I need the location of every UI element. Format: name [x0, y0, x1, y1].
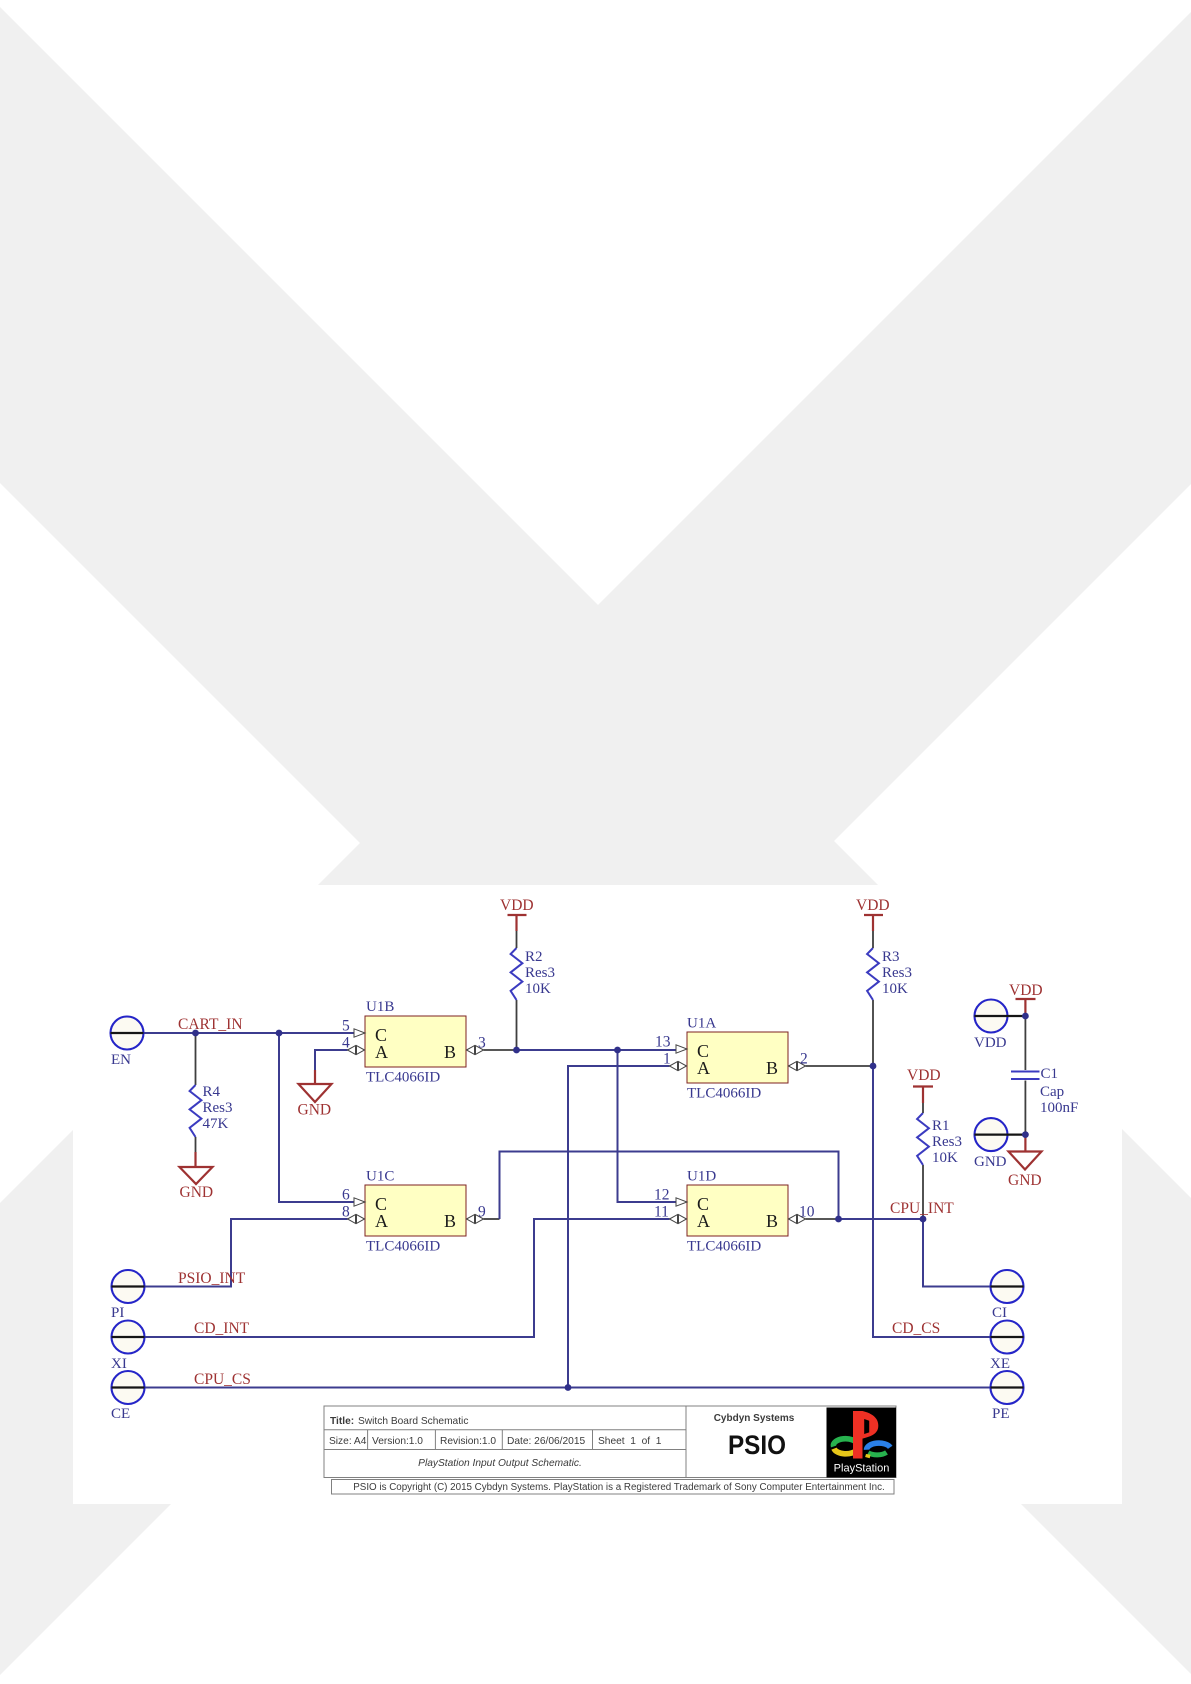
port CE [112, 1371, 145, 1404]
svg-text:PlayStation Input Output Schem: PlayStation Input Output Schematic. [418, 1458, 582, 1469]
svg-text:CE: CE [111, 1406, 130, 1422]
svg-text:A: A [375, 1042, 388, 1062]
svg-text:10K: 10K [932, 1150, 958, 1166]
svg-text:TLC4066ID: TLC4066ID [366, 1239, 440, 1255]
pin 4 [348, 1046, 356, 1055]
wire U1B pin3 stub [484, 1049, 517, 1051]
port PE [991, 1371, 1024, 1404]
ground below U1B pin4 [299, 1084, 332, 1102]
svg-text:CD_CS: CD_CS [892, 1320, 940, 1337]
pin 10 [789, 1215, 797, 1224]
pin 3 [467, 1046, 475, 1055]
svg-text:PlayStation: PlayStation [834, 1463, 890, 1475]
wire CPU_INT to CI [923, 1219, 991, 1287]
svg-text:VDD: VDD [974, 1035, 1007, 1051]
svg-text:10: 10 [799, 1204, 815, 1221]
svg-text:U1D: U1D [687, 1169, 716, 1185]
svg-text:EN: EN [111, 1052, 131, 1068]
wire U1A pin2 stub [806, 1065, 874, 1067]
svg-text:C1: C1 [1041, 1066, 1059, 1082]
wire CPU_CS (CE to PE) [145, 1387, 991, 1389]
port CI [991, 1270, 1024, 1303]
svg-text:CD_INT: CD_INT [194, 1320, 250, 1337]
pin 8 [348, 1215, 356, 1224]
resistor R1 [917, 1113, 929, 1165]
svg-text:8: 8 [342, 1204, 350, 1221]
svg-text:GND: GND [298, 1102, 332, 1119]
pin 9 [467, 1215, 475, 1224]
title block frame [324, 1406, 896, 1478]
node R3 junction [870, 1063, 877, 1070]
svg-text:PSIO: PSIO [728, 1430, 786, 1460]
wire VDD port to C1 [1024, 1016, 1026, 1070]
port XE [991, 1321, 1024, 1354]
wire R3 drop [872, 1000, 874, 1066]
node CART_IN junction at R4 [192, 1030, 199, 1037]
svg-text:Cybdyn Systems: Cybdyn Systems [714, 1413, 795, 1424]
svg-text:B: B [444, 1211, 456, 1231]
pin 1 [670, 1062, 678, 1071]
node CPU_INT junction at R1 [920, 1216, 927, 1223]
svg-text:CPU_CS: CPU_CS [194, 1371, 251, 1388]
svg-text:CART_IN: CART_IN [178, 1016, 243, 1033]
svg-text:12: 12 [654, 1187, 670, 1204]
svg-text:47K: 47K [203, 1116, 229, 1132]
wire CD_INT (XI to U1D pin11) [145, 1219, 670, 1337]
svg-text:CPU_INT: CPU_INT [890, 1200, 954, 1217]
svg-text:10K: 10K [525, 981, 551, 997]
svg-text:VDD: VDD [500, 897, 534, 914]
analog switch U1C [365, 1185, 466, 1236]
port EN [111, 1017, 144, 1050]
svg-text:R3: R3 [882, 949, 900, 965]
analog switch U1D [687, 1185, 788, 1236]
svg-text:CI: CI [992, 1305, 1007, 1321]
svg-text:R4: R4 [203, 1084, 221, 1100]
svg-text:Version:1.0: Version:1.0 [372, 1436, 423, 1447]
port PI [112, 1270, 145, 1303]
analog switch U1A [687, 1032, 788, 1083]
svg-text:PSIO is Copyright (C) 2015 Cyb: PSIO is Copyright (C) 2015 Cybdyn System… [353, 1482, 884, 1493]
VDD symbol above R1 [913, 1085, 933, 1087]
svg-text:A: A [697, 1058, 710, 1078]
wire PSIO_INT (PI to U1C pin8) [145, 1219, 348, 1287]
wire CD_CS vertical to XE [873, 1066, 991, 1337]
svg-text:100nF: 100nF [1040, 1100, 1078, 1116]
svg-text:Res3: Res3 [882, 965, 912, 981]
svg-text:XI: XI [111, 1356, 127, 1372]
svg-text:XE: XE [990, 1356, 1010, 1372]
svg-text:U1B: U1B [366, 999, 394, 1015]
svg-text:Size: A4: Size: A4 [329, 1436, 367, 1447]
node R2 junction [513, 1047, 520, 1054]
wire C1 to GND node [1024, 1081, 1026, 1135]
svg-text:PSIO_INT: PSIO_INT [178, 1270, 246, 1287]
svg-text:TLC4066ID: TLC4066ID [687, 1239, 761, 1255]
svg-text:U1C: U1C [366, 1169, 394, 1185]
svg-text:1: 1 [663, 1051, 671, 1068]
VDD symbol above R3 [864, 914, 883, 916]
ground below C1 [1024, 1135, 1026, 1152]
pin 13 [676, 1045, 687, 1053]
svg-text:Sheet 1 of 1: Sheet 1 of 1 [598, 1436, 662, 1447]
svg-text:GND: GND [180, 1184, 214, 1201]
svg-text:B: B [766, 1211, 778, 1231]
wire CART_IN drop to U1C pin6 [279, 1033, 354, 1202]
svg-text:11: 11 [654, 1204, 669, 1221]
svg-text:Switch Board Schematic: Switch Board Schematic [358, 1416, 468, 1427]
svg-text:A: A [697, 1211, 710, 1231]
svg-text:9: 9 [478, 1204, 486, 1221]
wire U1C pin9 stub [484, 1218, 500, 1220]
svg-text:R2: R2 [525, 949, 543, 965]
pin 11 [670, 1215, 678, 1224]
svg-text:GND: GND [974, 1154, 1007, 1170]
wire U1D pin10 stub [806, 1218, 839, 1220]
svg-text:VDD: VDD [856, 897, 890, 914]
svg-text:3: 3 [478, 1035, 486, 1052]
wire CPU_INT node to R1 [839, 1218, 924, 1220]
pin 6 [354, 1198, 365, 1206]
svg-text:Date: 26/06/2015: Date: 26/06/2015 [507, 1436, 586, 1447]
capacitor C1 [1011, 1071, 1040, 1073]
port VDD [975, 1000, 1008, 1033]
node CART_IN junction at U1C branch [276, 1030, 283, 1037]
svg-text:PI: PI [111, 1305, 124, 1321]
svg-text:B: B [766, 1058, 778, 1078]
copyright row [332, 1480, 895, 1495]
svg-text:5: 5 [342, 1018, 350, 1035]
wire R1 drop [922, 1165, 924, 1219]
svg-text:TLC4066ID: TLC4066ID [366, 1070, 440, 1086]
analog switch U1B [365, 1016, 466, 1067]
svg-text:4: 4 [342, 1035, 350, 1052]
svg-text:Title:: Title: [330, 1416, 354, 1427]
resistor R4 [190, 1085, 202, 1137]
svg-text:GND: GND [1008, 1172, 1042, 1189]
port XI [112, 1321, 145, 1354]
node VDD junction [1022, 1013, 1029, 1020]
wire U1B pin4 to GND [315, 1050, 348, 1070]
svg-text:VDD: VDD [1009, 982, 1043, 999]
wire U1A pin1 to CPU_CS [568, 1066, 670, 1388]
VDD symbol above C1 [1016, 998, 1036, 1000]
wire CART_IN (EN to U1B pin5) [144, 1032, 355, 1034]
svg-text:Res3: Res3 [203, 1100, 233, 1116]
wire R4 drop [195, 1033, 197, 1085]
node U1A/U1D branch junction [614, 1047, 621, 1054]
resistor R2 [511, 948, 523, 1000]
svg-text:Cap: Cap [1040, 1084, 1064, 1100]
wire drop to U1D pin12 [618, 1050, 677, 1202]
svg-text:VDD: VDD [907, 1067, 941, 1084]
svg-text:10K: 10K [882, 981, 908, 997]
svg-text:R1: R1 [932, 1118, 950, 1134]
port GND [975, 1118, 1008, 1151]
ground below R4 [195, 1137, 197, 1152]
VDD symbol above R2 [508, 914, 527, 916]
svg-text:Res3: Res3 [525, 965, 555, 981]
svg-text:13: 13 [655, 1034, 671, 1051]
wire node R2 to U1A pin13 [517, 1049, 677, 1051]
node GND junction [1022, 1131, 1029, 1138]
wire R2 drop [516, 1000, 518, 1050]
svg-text:PE: PE [992, 1406, 1010, 1422]
schematic page [73, 885, 1122, 1504]
svg-text:U1A: U1A [687, 1016, 716, 1032]
node CPU_CS junction [565, 1384, 572, 1391]
svg-text:Revision:1.0: Revision:1.0 [440, 1436, 496, 1447]
svg-text:A: A [375, 1211, 388, 1231]
node CPU_INT junction at U1D pin10 [835, 1216, 842, 1223]
svg-text:B: B [444, 1042, 456, 1062]
svg-text:6: 6 [342, 1187, 350, 1204]
pin 5 [354, 1029, 365, 1037]
logo PlayStation [827, 1408, 897, 1478]
pin 12 [676, 1198, 687, 1206]
svg-text:2: 2 [800, 1051, 808, 1068]
svg-text:TLC4066ID: TLC4066ID [687, 1086, 761, 1102]
wire U1C pin9 loop to CPU_INT node [500, 1152, 839, 1220]
resistor R3 [867, 948, 879, 1000]
svg-text:Res3: Res3 [932, 1134, 962, 1150]
pin 2 [789, 1062, 797, 1071]
